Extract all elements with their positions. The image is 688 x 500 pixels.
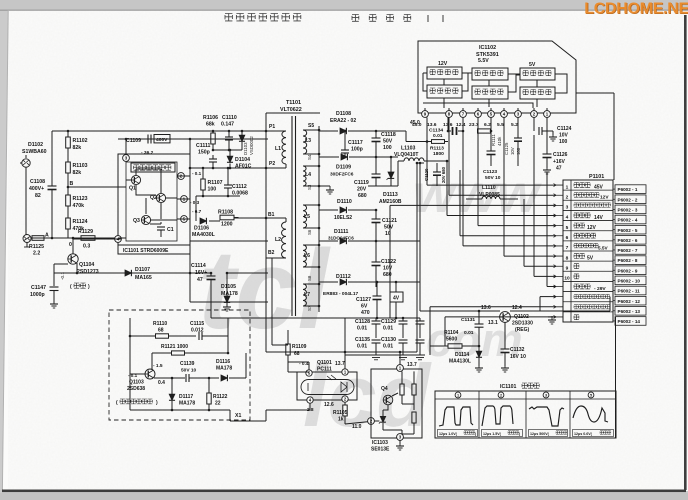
diode D1110 [319,209,338,211]
row8 label [574,254,585,259]
wire [309,403,311,410]
row4 label [574,213,590,218]
connector P6002-4 [615,215,646,224]
pin 4 opto [307,397,313,403]
adjust circuit box 1 [427,67,462,79]
capacitor C1128 [375,318,377,321]
capacitor C1119 [375,157,377,174]
node B [67,173,69,195]
pin 2 IC1102 [531,111,538,118]
waveform 2 [498,392,504,398]
diode D1112 [319,281,338,283]
row11 label [574,284,590,289]
capacitor C1109 [118,138,268,140]
connector P6002-2 [615,195,646,204]
wire entries [210,308,212,318]
ground [53,300,55,304]
resistor internal 2 [412,384,416,395]
capacitor C1125 [517,117,519,138]
waveform 3 [543,392,549,398]
diode D1104 [227,156,233,162]
error amp box 2 [472,86,508,99]
pin 8 IC1102 [446,111,453,118]
error amp box 3 [520,87,555,99]
pin 6 IC1102 [475,111,482,118]
transistor Q1103 [145,369,155,379]
wire [130,409,230,411]
capacitor C1118 [375,131,377,138]
diode D1103 [239,135,245,141]
ground [226,303,228,307]
wire pin5 chain [188,218,191,220]
wire snubber bottom [213,149,242,151]
resistor R1107 [201,179,205,190]
diode D1106 [200,218,206,224]
title text left [225,14,301,21]
wire main left bus [189,139,191,302]
4V box [390,292,403,302]
ground row9 [523,265,525,267]
capacitor C1122 [375,241,377,262]
wire D1102 branch [25,167,27,235]
pin 7 IC1102 [460,111,467,118]
resistor R1123 [66,195,71,206]
transistor Q1 [131,175,140,184]
resistor R1105 [344,402,346,405]
capacitor C1121 [375,210,377,219]
waveform box [435,391,616,438]
wire snubber top [212,131,214,133]
wire [67,148,69,162]
wire row14 feed [445,316,556,318]
optocoupler Q1101 [297,372,357,400]
row6 label [574,233,596,238]
capacitor row extra [419,318,421,321]
auto voltage select box [131,163,175,172]
wire [416,163,418,352]
diode D1113 zener [390,157,392,172]
connector P6002-9 [615,266,646,275]
wire [129,318,131,377]
connector P6002-12 [615,296,646,305]
wire top rail [52,130,268,132]
pin 2 opto [342,396,348,402]
resistor R1108 [220,215,234,220]
wire IC1102 right feed [576,92,614,94]
transistor Q1102 [500,312,511,323]
wire IC1102 internals [423,73,567,108]
wire table to waveform box [615,317,617,438]
wire [73,238,122,240]
resistor internal 1 [400,384,404,395]
watermark [198,164,542,445]
node 3 IC1103 [397,434,404,441]
transistor Q2 [156,193,165,202]
connector P6002-13 [615,307,646,316]
resistor R1109 [286,344,290,355]
row3 label [574,203,611,207]
op-amp IC1101 outline [118,154,190,245]
pin 1 [181,196,188,203]
waveform 1 [455,392,461,398]
wire row6 feed [459,170,461,236]
transformer core [291,116,293,316]
capacitor C1 [157,226,165,228]
row10 label [574,274,579,279]
error amp box 1 [427,85,462,98]
row12 label [574,295,610,299]
wire P2 rail [190,167,268,169]
ground [504,364,506,368]
wire [76,263,78,273]
wire pin7 to row7 [462,117,464,246]
capacitor C1124 [533,117,535,129]
row9 label [574,264,579,269]
pin 2 [178,173,185,180]
capacitor C1126 [546,117,548,154]
connector P6002-5 [615,225,646,234]
wire row3 feed [390,204,556,206]
wire 13.6 rail [419,163,421,311]
connector P6002-7 [615,246,646,255]
resistor R1124 [66,218,71,229]
pin 1 IC1102 [544,111,551,118]
diode D1107 [125,270,131,276]
diode D1117 [171,378,173,394]
wire pin8 to row2 [448,117,450,195]
transistor Q1104 [68,254,78,264]
connector P6002-11 [615,286,646,295]
wire long cross [265,302,267,352]
wire pin1 to row11 [546,172,548,287]
wire primary bottom [190,301,268,303]
resistor R1111 [478,129,491,133]
resistor R1129 [81,236,95,241]
pin 1 opto [342,369,348,375]
ground [399,440,401,444]
resistor R1122 [208,378,210,393]
node 1 IC1103 [397,365,404,372]
adjust circuit box 2 [472,68,508,80]
row feed arrows [554,184,564,319]
ground ticks [372,357,380,359]
wire pin2 to row10 [533,135,535,276]
ground [478,364,480,368]
pin 4 [115,236,122,243]
diode D1111 [319,240,338,242]
capacitor C1112 [227,168,229,185]
ground [319,185,330,187]
row2 label [574,193,599,198]
transformer outline [266,112,320,114]
wire [190,240,268,242]
pin 5 [181,216,188,223]
wire [345,354,425,356]
resistor R1103 [66,162,71,173]
wire row9 ground [523,199,525,266]
wire [54,263,68,265]
wire bottom rail left [31,237,118,239]
capacitor C1123 [487,150,496,152]
wire pin4 to row8 [503,117,505,256]
row14 label [574,315,579,320]
error detect box X1 [109,310,250,420]
pin 3 [123,155,130,162]
connector P6002-10 [615,276,646,285]
row13 label [574,305,610,309]
resistor R1125 [32,236,44,241]
waveform 5 [588,392,594,398]
transistor Q3 [141,215,150,224]
pin 4 IC1102 [501,111,508,118]
pin 5 IC1102 [488,111,495,118]
connector P6002-6 [615,236,646,245]
wire [345,317,420,319]
wire 45V rail to P1101 [426,117,428,185]
connector P6002-14 [615,317,646,326]
ground row14 [548,316,556,318]
wire 14V feed row4 [446,161,448,216]
page bottom border [2,490,686,493]
diode D1102 lower element [23,235,31,243]
wire pin6 to row5 [477,117,479,225]
wire [67,206,69,218]
diode D1109 [319,156,339,158]
page right border [684,15,687,490]
winding L6 [303,244,319,246]
winding L7 [303,283,319,285]
wire row13 feed [430,306,556,308]
adjust circuit box 3 [520,68,555,80]
resistor internal 3 [412,412,416,423]
wire [368,185,398,187]
winding L3 [303,129,319,131]
wire secondary bus [318,126,320,312]
node 2 [368,418,375,425]
connector P6002-8 [615,256,646,265]
row1 label [574,183,590,188]
winding L5 [303,204,319,206]
wire [196,195,240,197]
row7 label [574,243,598,248]
pin 5 opto [306,370,312,376]
wire IC1101 internals [126,169,177,224]
winding L4 [303,165,319,167]
row5 label [574,223,585,228]
wire [265,301,267,303]
op-amp IC1103 outline [371,369,422,438]
wire row12 feed [540,296,556,298]
zener diode [380,416,385,422]
resistor R1102 [66,137,71,148]
op-amp IC1102 outline [418,41,576,113]
connector P6002-1 [615,185,646,194]
wire [288,371,309,373]
capacitor C1127 [376,282,378,296]
title text right [352,15,411,22]
connector P6002-3 [615,205,646,214]
wire IC1103 internals [378,393,414,434]
wire B1 rail [209,220,220,222]
pin 9 IC1102 [422,111,429,118]
capacitor C1132 [504,322,506,349]
pin 3 IC1102 [515,111,522,118]
